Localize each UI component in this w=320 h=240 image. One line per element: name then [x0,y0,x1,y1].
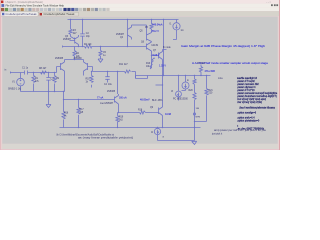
svg-text:C1 1u: C1 1u [22,68,29,70]
wire tail resistor column [74,47,76,60]
wire gnd stub column [48,92,50,105]
voltage source V1 [17,78,25,86]
svg-text:1m: 1m [181,30,184,32]
wire column R10 down [91,72,93,76]
transistor Q4 mirror left [128,20,132,47]
svg-text:R18: R18 [138,110,143,112]
wire column C2 [82,20,84,47]
svg-text:.option plotwinsize=0: .option plotwinsize=0 [237,120,260,123]
transistor Q6 cascode [147,42,152,56]
wire second stage bus [93,71,136,73]
status bar [2,144,278,149]
svg-text:R13: R13 [146,63,151,65]
svg-text:471u 6R8: 471u 6R8 [205,70,216,73]
wire column R7 gnd stub [100,47,102,60]
capacitor C3 [46,78,50,81]
svg-text:just pick it: just pick it [211,133,222,136]
svg-text:.lib C:\Users\Michael\Document: .lib C:\Users\Michael\Documents\AudioStu… [56,133,114,136]
svg-text:.four v(Freq) V(rail) V(thd): .four v(Freq) V(rail) V(thd) [237,101,262,104]
wire V1 column [20,73,22,92]
wire column R20 [194,76,196,122]
resistor R2 tail [73,51,76,58]
tab bar [1,12,279,16]
svg-text:R20: R20 [189,90,194,92]
wire I3 column [178,76,180,101]
current source I4 [182,82,189,89]
resistor R22 top right [199,65,202,76]
transistor Q1 diff left [57,60,65,92]
wire column R21 [206,76,208,122]
svg-text:R8 4k7: R8 4k7 [39,68,47,70]
current source I1 [173,23,180,30]
svg-text:200 uA: 200 uA [119,97,127,100]
resistor R1 [32,76,35,83]
schematic text labels [5,23,278,139]
wire C3 column [48,73,50,92]
svg-text:2N5088: 2N5088 [107,91,116,93]
menu bar [1,4,279,8]
wire column x151 down [150,56,155,69]
svg-text:-55.2 V: -55.2 V [151,30,159,33]
wire driver base bus y112 [119,112,159,114]
svg-text:med 2N5087: med 2N5087 [100,103,114,105]
window frame [0,0,280,150]
svg-text:1.33 V: 1.33 V [159,64,166,67]
wire current source I1 column [173,20,177,40]
transistor Q2 diff right [84,60,93,76]
resistor R20a [193,79,196,85]
resistor R18 series [140,111,146,114]
wire top supply rail [68,19,179,21]
toolbar [1,7,279,11]
wire base join mirror [132,24,147,26]
svg-text:File Edit Hierarchy View Simul: File Edit Hierarchy View Simulate Tools … [6,4,65,8]
svg-text:CrudeAmpModel Tweak: CrudeAmpModel Tweak [44,12,76,16]
wire column R19 [118,113,119,128]
current source I2 [154,128,160,134]
capacitor C8 small [193,113,195,115]
svg-text:CrudeAmpAndToneTweak: CrudeAmpAndToneTweak [5,12,37,16]
resistor R13 diagonal [150,58,155,69]
svg-text:R10: R10 [86,79,91,81]
resistor R10 [90,76,93,88]
transistor Q5 [147,25,152,42]
wire join columns [195,122,207,128]
svg-text:NPN: NPN [196,117,201,119]
resistor R20 [193,93,196,100]
schematic canvas [2,17,278,144]
svg-text:as (may linear predictable yet: as (may linear predictable yet/point) [78,137,133,140]
ground symbol R7 [98,59,103,62]
transistor Q7 driver top [155,50,167,76]
wire column R3 [70,20,72,37]
svg-text:R16: R16 [64,113,69,115]
svg-text:Gain Margin at 6dB Phase Margi: Gain Margin at 6dB Phase Margin 45 deg(e… [181,45,266,48]
svg-text:2N5087: 2N5087 [116,34,125,36]
resistor R7 [99,51,102,59]
resistor R16 [62,112,65,119]
resistor R9 [53,76,56,83]
junction dots [33,19,207,128]
svg-text:m1a: m1a [218,78,223,80]
ground symbol output [192,141,197,144]
resistor R19 [116,116,119,122]
wire input bus [10,72,57,74]
transistor Q3 [70,35,79,47]
wire R1 column [33,73,35,92]
svg-text:2N5088: 2N5088 [74,58,83,60]
wire diff emitter join [65,59,84,61]
wire I2 column [157,128,159,141]
title bar [0,0,280,4]
capacitor C2 [80,34,85,36]
transistor Q8 lower [115,94,119,113]
wire mid output rail [136,76,211,79]
wire VAS link down [136,72,148,79]
svg-text:bd139: bd139 [152,45,159,47]
wire base bus lower [64,99,115,101]
svg-text:SINE(0 1 1k): SINE(0 1 1k) [8,88,21,90]
svg-text:2N5088: 2N5088 [55,58,64,60]
svg-text:5.08 V: 5.08 V [153,54,160,57]
svg-text:fb node: fb node [163,47,171,49]
wire I4 column [182,76,186,91]
wire bias node down [162,119,164,128]
svg-text:77 uA: 77 uA [97,97,104,100]
wire R9 column [54,73,56,92]
resistor R11 series horizontal [125,70,131,73]
transistor Q9 driver bottom [159,105,163,119]
resistor R21 [205,89,208,95]
wire long vertical mid [163,20,165,76]
svg-text:48.03mV: 48.03mV [140,99,150,102]
ground symbol input [46,105,51,108]
svg-text:.fbsa ft wavfile/amp/alternate: .fbsa ft wavfile/amp/alternate fdbsamp [239,107,276,110]
wire bus y46 [63,46,147,48]
svg-text:R19: R19 [119,117,124,119]
wire column x117 to Q8 [117,72,119,95]
current source I3 [176,91,182,97]
svg-text:R4 1k0: R4 1k0 [84,44,92,46]
wire column R16 [63,92,65,128]
svg-text:PC MJE15030: PC MJE15030 [173,99,189,101]
wire column R17 [78,100,80,128]
resistor R17 [77,108,80,114]
svg-text:2N5087: 2N5087 [63,39,72,41]
resistor R4 series horizontal [85,45,92,48]
capacitor C1 series [25,71,28,75]
wire capacitor C4 stub [107,72,109,83]
svg-text:C7 R22: C7 R22 [197,63,206,65]
svg-text:10.98: 10.98 [165,113,172,116]
wire input ground bus [21,91,65,93]
svg-text:– ▫ ×: – ▫ × [266,1,272,4]
svg-text:.option noexfge=6: .option noexfge=6 [237,112,257,115]
wire Q9 collector up [162,76,164,105]
resistor R3 [69,29,72,35]
resistor R5 [150,20,153,32]
svg-text:BLD .48%: BLD .48% [152,100,162,102]
svg-text:R17: R17 [80,109,85,111]
resistor R8 series input [41,71,47,74]
svg-text:amp power per rail +16 - just: amp power per rail +16 - just pick it so… [214,129,267,132]
wire bottom rail [60,127,201,129]
svg-text:249.54uA: 249.54uA [152,23,163,26]
capacitor C4 [105,77,109,80]
wire bottom loop [158,128,195,141]
wire output tap [156,84,163,86]
